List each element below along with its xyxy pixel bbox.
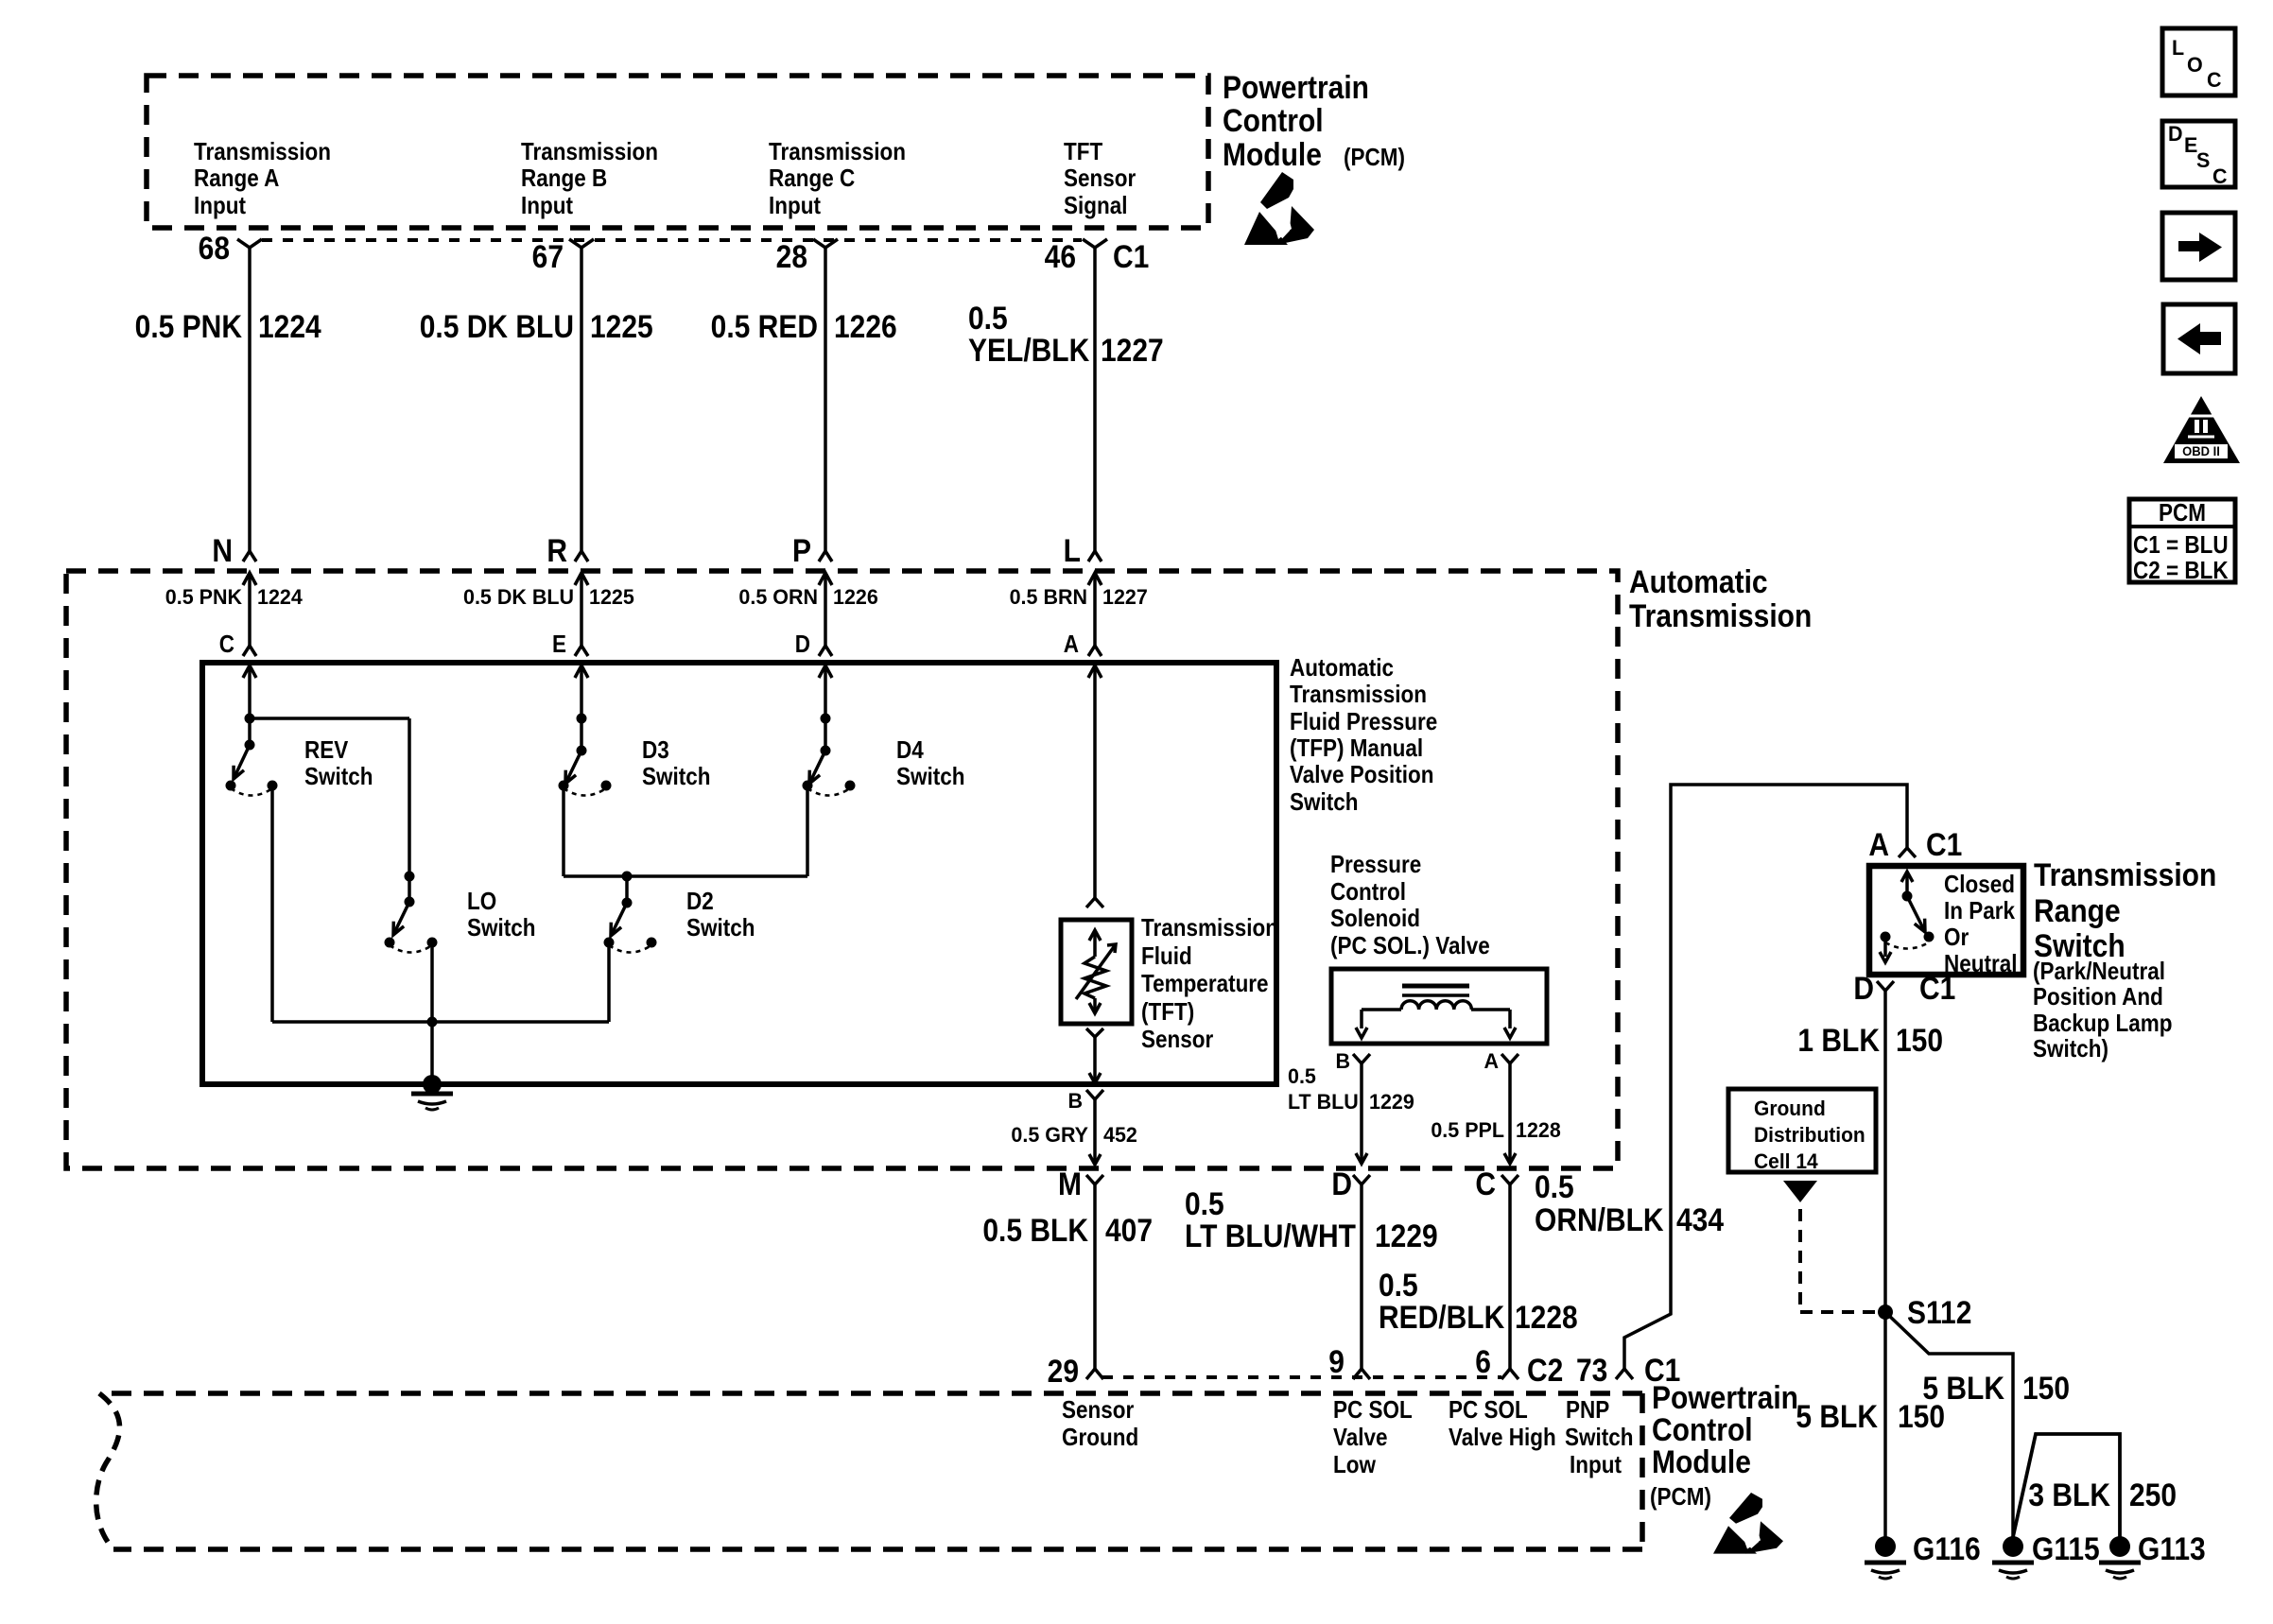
svg-text:0.5 GRY: 0.5 GRY bbox=[1011, 1123, 1088, 1148]
wire REV junction to LO switch bbox=[250, 717, 409, 720]
svg-text:Transmission: Transmission bbox=[1141, 915, 1278, 942]
svg-text:S: S bbox=[2196, 148, 2210, 173]
svg-text:29: 29 bbox=[1048, 1353, 1079, 1389]
svg-text:Temperature: Temperature bbox=[1141, 971, 1269, 998]
grommet R into transmission bbox=[463, 532, 634, 656]
svg-text:Ground: Ground bbox=[1062, 1425, 1138, 1452]
svg-text:Low: Low bbox=[1333, 1452, 1376, 1479]
svg-text:D4: D4 bbox=[896, 737, 924, 765]
svg-text:Input: Input bbox=[1570, 1452, 1622, 1479]
svg-text:0.5 PNK: 0.5 PNK bbox=[165, 585, 242, 610]
svg-text:P: P bbox=[792, 532, 811, 568]
svg-text:Distribution: Distribution bbox=[1754, 1124, 1865, 1148]
svg-text:A: A bbox=[1868, 826, 1889, 862]
svg-text:3 BLK: 3 BLK bbox=[2028, 1477, 2110, 1512]
label: PNP Switch Input bbox=[1565, 1397, 1633, 1479]
svg-text:Switch: Switch bbox=[304, 764, 373, 791]
svg-text:1227: 1227 bbox=[1101, 332, 1164, 368]
svg-text:0.5: 0.5 bbox=[1535, 1168, 1574, 1204]
connector D C1 (TR switch) bbox=[1853, 970, 1955, 1006]
svg-text:C: C bbox=[2207, 68, 2222, 93]
svg-text:LO: LO bbox=[467, 889, 496, 916]
Ground Distribution Cell 14 box bbox=[1728, 1089, 1876, 1172]
grommet L into transmission bbox=[1010, 532, 1148, 656]
svg-text:D: D bbox=[2168, 122, 2183, 147]
svg-text:150: 150 bbox=[2022, 1370, 2070, 1406]
svg-text:S112: S112 bbox=[1907, 1294, 1971, 1330]
pin E bbox=[552, 631, 588, 751]
svg-text:1224: 1224 bbox=[258, 308, 321, 344]
svg-text:Sensor: Sensor bbox=[1062, 1397, 1135, 1425]
ground G113 bbox=[2099, 1530, 2206, 1579]
svg-text:Switch: Switch bbox=[642, 764, 710, 791]
svg-text:Solenoid: Solenoid bbox=[1330, 906, 1420, 933]
svg-text:C: C bbox=[219, 631, 234, 659]
ground distribution feed arrow bbox=[1783, 1181, 1817, 1202]
svg-text:M: M bbox=[1058, 1166, 1082, 1201]
svg-text:0.5: 0.5 bbox=[1288, 1064, 1316, 1089]
title: Powertrain Control Module (PCM) bottom bbox=[1650, 1379, 1798, 1511]
svg-text:Automatic: Automatic bbox=[1290, 655, 1394, 682]
wire 1228 (0.5 PPL) bbox=[1431, 1063, 1560, 1164]
svg-text:N: N bbox=[212, 532, 233, 568]
svg-text:Input: Input bbox=[769, 193, 821, 220]
svg-text:Powertrain: Powertrain bbox=[1652, 1379, 1798, 1415]
wire 1224 (0.5 PNK) PCM to transmission bbox=[135, 248, 321, 551]
title: Transmission Range Switch (Park/Neutral Position And Backup Lamp Switch) bbox=[2033, 856, 2216, 1063]
svg-text:73: 73 bbox=[1576, 1352, 1607, 1388]
ground G115 bbox=[1992, 1530, 2100, 1579]
svg-text:6: 6 bbox=[1475, 1343, 1491, 1379]
svg-text:C1: C1 bbox=[1919, 970, 1955, 1006]
grommet N into transmission bbox=[165, 532, 304, 656]
svg-text:0.5 BLK: 0.5 BLK bbox=[982, 1212, 1088, 1248]
pin B (PC SOL) bbox=[1335, 1049, 1370, 1074]
icon: back arrow bbox=[2163, 304, 2235, 373]
svg-text:1229: 1229 bbox=[1375, 1218, 1438, 1253]
svg-text:9: 9 bbox=[1328, 1343, 1345, 1379]
svg-text:Automatic: Automatic bbox=[1629, 563, 1768, 599]
svg-text:C2: C2 bbox=[1527, 1352, 1563, 1388]
svg-text:(TFT): (TFT) bbox=[1141, 999, 1194, 1027]
label: Closed In Park Or Neutral bbox=[1944, 872, 2017, 978]
pin 9 connector bbox=[1328, 1343, 1370, 1379]
svg-text:(PCM): (PCM) bbox=[1344, 145, 1405, 172]
svg-text:Control: Control bbox=[1223, 102, 1324, 138]
svg-text:0.5: 0.5 bbox=[968, 300, 1008, 336]
Powertrain Control Module (PCM) dashed box (top) bbox=[147, 76, 1208, 228]
svg-text:(PCM): (PCM) bbox=[1650, 1484, 1711, 1512]
TFT sensor box bbox=[1061, 920, 1132, 1024]
svg-text:(TFP) Manual: (TFP) Manual bbox=[1290, 735, 1423, 763]
svg-text:1227: 1227 bbox=[1102, 585, 1148, 610]
wire 1229 (0.5 LT BLU) bbox=[1288, 1063, 1414, 1164]
svg-text:A: A bbox=[1064, 631, 1079, 659]
svg-text:Position And: Position And bbox=[2033, 984, 2163, 1011]
wire 407 (0.5 BLK) bbox=[982, 1184, 1153, 1369]
wire 1226 (0.5 RED) bbox=[711, 248, 897, 551]
connector A C1 (TR switch) bbox=[1868, 826, 1962, 862]
svg-text:LT BLU/WHT: LT BLU/WHT bbox=[1185, 1218, 1356, 1253]
svg-text:YEL/BLK: YEL/BLK bbox=[968, 332, 1090, 368]
svg-text:PC SOL: PC SOL bbox=[1449, 1397, 1528, 1425]
solenoid coil (PC SOL) bbox=[1356, 986, 1516, 1038]
label: Sensor Ground bbox=[1062, 1397, 1138, 1452]
wire 1228 (0.5 RED/BLK) bbox=[1379, 1184, 1578, 1369]
svg-text:Switch: Switch bbox=[1290, 789, 1358, 817]
svg-text:OBD II: OBD II bbox=[2182, 444, 2220, 458]
svg-text:Switch: Switch bbox=[896, 764, 964, 791]
pin C bbox=[219, 631, 256, 745]
svg-text:C: C bbox=[2212, 164, 2228, 189]
svg-text:D: D bbox=[795, 631, 810, 659]
svg-text:46: 46 bbox=[1045, 238, 1076, 274]
svg-text:Range C: Range C bbox=[769, 165, 855, 193]
connector row dashed line (bottom PCM) bbox=[1102, 1375, 1501, 1379]
icon: DESC bbox=[2162, 121, 2235, 188]
svg-text:Sensor: Sensor bbox=[1141, 1027, 1214, 1054]
connector row dashed line C1 (top) bbox=[262, 238, 1082, 242]
wire bus D3-D4 bbox=[564, 874, 807, 878]
svg-text:Control: Control bbox=[1652, 1411, 1753, 1447]
label: Ground Distribution Cell 14 bbox=[1754, 1097, 1865, 1174]
svg-text:D: D bbox=[1331, 1166, 1352, 1201]
svg-text:1229: 1229 bbox=[1369, 1090, 1414, 1114]
pin 29 connector bbox=[1048, 1353, 1103, 1389]
wire 150 (1 BLK) TR switch to S112 bbox=[1797, 991, 1943, 1537]
svg-text:Valve High: Valve High bbox=[1449, 1425, 1556, 1452]
svg-text:L: L bbox=[2172, 36, 2184, 60]
svg-text:C2 = BLK: C2 = BLK bbox=[2133, 558, 2229, 585]
svg-text:Or: Or bbox=[1944, 924, 1969, 952]
svg-text:1 BLK: 1 BLK bbox=[1797, 1022, 1880, 1058]
svg-text:G116: G116 bbox=[1913, 1530, 1981, 1566]
svg-text:A: A bbox=[1484, 1049, 1499, 1074]
Automatic Transmission dashed box bbox=[66, 571, 1618, 1168]
icon: LOC bbox=[2162, 28, 2235, 95]
wire LO right contact to internal ground bbox=[430, 945, 434, 1084]
svg-text:Powertrain: Powertrain bbox=[1223, 69, 1369, 105]
svg-text:Module: Module bbox=[1223, 136, 1322, 172]
svg-text:Transmission: Transmission bbox=[1290, 682, 1427, 709]
ground distribution dashed feed bbox=[1798, 1209, 1802, 1312]
svg-text:1225: 1225 bbox=[590, 308, 653, 344]
svg-text:0.5 PNK: 0.5 PNK bbox=[135, 308, 243, 344]
svg-text:(PC SOL.) Valve: (PC SOL.) Valve bbox=[1330, 933, 1490, 960]
svg-text:0.5 PPL: 0.5 PPL bbox=[1431, 1118, 1504, 1143]
pin A bbox=[1064, 631, 1102, 898]
svg-text:PNP: PNP bbox=[1566, 1397, 1609, 1425]
pin 68 connector bbox=[199, 230, 262, 266]
svg-text:434: 434 bbox=[1676, 1201, 1724, 1237]
svg-text:PCM: PCM bbox=[2159, 500, 2206, 527]
svg-text:ORN/BLK: ORN/BLK bbox=[1535, 1201, 1664, 1237]
ground (TFP internal) bbox=[423, 1075, 442, 1094]
svg-text:Range: Range bbox=[2034, 892, 2121, 928]
svg-text:Control: Control bbox=[1330, 879, 1406, 907]
svg-text:Transmission: Transmission bbox=[194, 139, 331, 166]
svg-text:0.5 DK BLU: 0.5 DK BLU bbox=[463, 585, 574, 610]
svg-text:Pressure: Pressure bbox=[1330, 852, 1421, 879]
label: TFT Sensor Signal bbox=[1064, 139, 1136, 220]
wire 1229 (0.5 LT BLU/WHT) bbox=[1185, 1184, 1438, 1369]
label: Automatic Transmission Fluid Pressure (TFP) Manual Valve Position Switch bbox=[1290, 655, 1437, 817]
TFP manual valve position switch box bbox=[202, 663, 1276, 1084]
svg-text:RED/BLK: RED/BLK bbox=[1379, 1299, 1505, 1335]
svg-text:28: 28 bbox=[776, 238, 807, 274]
wire 1227 (0.5 YEL/BLK) bbox=[968, 248, 1164, 551]
svg-text:1228: 1228 bbox=[1515, 1299, 1578, 1335]
legend: PCM connector colors bbox=[2129, 499, 2235, 584]
svg-text:Range B: Range B bbox=[521, 165, 607, 193]
label: Transmission Fluid Temperature (TFT) Sensor bbox=[1141, 915, 1278, 1054]
svg-text:O: O bbox=[2187, 53, 2203, 78]
wire 150 (5 BLK) to G116 label bbox=[1796, 1398, 1945, 1434]
svg-text:407: 407 bbox=[1105, 1212, 1153, 1248]
icon: forward arrow bbox=[2162, 213, 2235, 280]
title: Automatic Transmission bbox=[1629, 563, 1812, 633]
svg-text:Closed: Closed bbox=[1944, 872, 2015, 899]
ESD warning symbol (top PCM) bbox=[1244, 172, 1314, 245]
svg-text:Ground: Ground bbox=[1754, 1097, 1826, 1121]
wire 150 (5 BLK) S112 to G115 bbox=[1885, 1312, 2070, 1537]
svg-text:Input: Input bbox=[521, 193, 573, 220]
connector M bbox=[1058, 1166, 1103, 1201]
splice S112 bbox=[1878, 1294, 1971, 1330]
svg-text:In Park: In Park bbox=[1944, 898, 2015, 925]
svg-text:68: 68 bbox=[199, 230, 230, 266]
wire REV right contact down bbox=[270, 788, 274, 1022]
svg-text:C1 = BLU: C1 = BLU bbox=[2133, 532, 2229, 560]
pin D bbox=[795, 631, 832, 751]
wire 434 (0.5 ORN/BLK) PNP switch input bbox=[1535, 785, 1907, 1369]
label: Transmission Range B Input bbox=[521, 139, 658, 220]
wire 1225 (0.5 DK BLU) bbox=[420, 248, 653, 551]
Powertrain Control Module dashed box (bottom) bbox=[99, 1391, 1642, 1396]
svg-text:1226: 1226 bbox=[834, 308, 897, 344]
wire 452 (0.5 GRY) bbox=[1011, 1099, 1136, 1165]
svg-text:Valve: Valve bbox=[1333, 1425, 1388, 1452]
svg-text:B: B bbox=[1335, 1049, 1350, 1074]
svg-text:Switch: Switch bbox=[686, 915, 755, 942]
svg-text:Sensor: Sensor bbox=[1064, 165, 1136, 193]
wire D4 left contact down bbox=[806, 788, 809, 876]
svg-text:B: B bbox=[1067, 1089, 1083, 1114]
ESD warning symbol (bottom PCM) bbox=[1713, 1493, 1783, 1554]
svg-text:R: R bbox=[547, 532, 567, 568]
D4 switch bbox=[803, 714, 965, 796]
grommet P into transmission bbox=[738, 532, 877, 656]
label: Transmission Range A Input bbox=[194, 139, 331, 220]
pin B (TFT output) bbox=[1067, 1089, 1103, 1114]
svg-text:D2: D2 bbox=[686, 889, 714, 916]
svg-text:0.5 RED: 0.5 RED bbox=[711, 308, 818, 344]
pin A (PC SOL) bbox=[1484, 1049, 1518, 1074]
svg-text:Switch: Switch bbox=[467, 915, 535, 942]
pin 28 connector bbox=[776, 238, 838, 274]
svg-text:PC SOL: PC SOL bbox=[1333, 1397, 1413, 1425]
svg-text:1225: 1225 bbox=[589, 585, 634, 610]
wire D2 left contact to bus bbox=[607, 945, 611, 1022]
svg-text:E: E bbox=[552, 631, 566, 659]
label: PC SOL Valve High bbox=[1449, 1397, 1556, 1452]
svg-text:LT BLU: LT BLU bbox=[1288, 1090, 1359, 1114]
wire TFT to box edge bbox=[1086, 1028, 1103, 1083]
svg-text:REV: REV bbox=[304, 737, 348, 765]
icon: OBD II bbox=[2163, 396, 2240, 463]
svg-text:Signal: Signal bbox=[1064, 193, 1127, 220]
svg-text:(Park/Neutral: (Park/Neutral bbox=[2033, 959, 2165, 986]
TR switch contacts bbox=[1880, 872, 1935, 962]
connector above TFT sensor bbox=[1086, 898, 1103, 907]
svg-text:Transmission: Transmission bbox=[1629, 597, 1812, 633]
svg-text:C1: C1 bbox=[1113, 238, 1149, 274]
svg-text:Valve Position: Valve Position bbox=[1290, 762, 1433, 789]
svg-text:1228: 1228 bbox=[1516, 1118, 1561, 1143]
svg-text:Transmission: Transmission bbox=[2034, 856, 2216, 892]
D2 switch bbox=[604, 876, 755, 953]
svg-text:5 BLK: 5 BLK bbox=[1796, 1398, 1878, 1434]
svg-text:Backup Lamp: Backup Lamp bbox=[2033, 1011, 2172, 1038]
svg-text:0.5 ORN: 0.5 ORN bbox=[738, 585, 818, 610]
svg-text:Cell 14: Cell 14 bbox=[1754, 1150, 1818, 1174]
svg-text:5 BLK: 5 BLK bbox=[1922, 1370, 2004, 1406]
label: PC SOL Valve Low bbox=[1333, 1397, 1413, 1479]
wire 250 (3 BLK) G115 to G113 bbox=[2013, 1434, 2177, 1537]
svg-text:Input: Input bbox=[194, 193, 246, 220]
svg-text:Switch: Switch bbox=[1565, 1425, 1633, 1452]
svg-text:G115: G115 bbox=[2032, 1530, 2100, 1566]
pin 67 connector bbox=[532, 238, 594, 274]
wire D3 left contact down bbox=[562, 788, 565, 876]
svg-text:452: 452 bbox=[1103, 1123, 1137, 1148]
TFT thermistor symbol bbox=[1076, 930, 1116, 1013]
svg-text:Fluid Pressure: Fluid Pressure bbox=[1290, 709, 1437, 736]
connector C bbox=[1475, 1166, 1518, 1201]
svg-text:1224: 1224 bbox=[257, 585, 304, 610]
label: Pressure Control Solenoid (PC SOL.) Valve bbox=[1330, 852, 1490, 960]
pin 46 connector C1 bbox=[1045, 238, 1150, 274]
svg-text:Fluid: Fluid bbox=[1141, 943, 1192, 971]
svg-text:Module: Module bbox=[1652, 1443, 1751, 1479]
svg-text:Transmission: Transmission bbox=[769, 139, 906, 166]
pin 73 connector C1 bbox=[1576, 1352, 1680, 1388]
ground G116 bbox=[1865, 1530, 1981, 1579]
svg-text:0.5: 0.5 bbox=[1379, 1267, 1418, 1303]
LO switch bbox=[385, 872, 536, 953]
pin 6 connector C2 bbox=[1475, 1343, 1563, 1388]
PC SOL valve box bbox=[1331, 969, 1547, 1044]
svg-text:L: L bbox=[1064, 532, 1081, 568]
svg-text:150: 150 bbox=[1896, 1022, 1943, 1058]
connector D bbox=[1331, 1166, 1370, 1201]
svg-text:D3: D3 bbox=[642, 737, 669, 765]
transmission range switch box bbox=[1869, 866, 2023, 975]
svg-text:C1: C1 bbox=[1926, 826, 1962, 862]
svg-text:0.5 BRN: 0.5 BRN bbox=[1010, 585, 1087, 610]
svg-text:Range A: Range A bbox=[194, 165, 279, 193]
svg-text:C: C bbox=[1475, 1166, 1496, 1201]
svg-text:Switch): Switch) bbox=[2033, 1036, 2108, 1063]
svg-text:250: 250 bbox=[2129, 1477, 2177, 1512]
svg-text:G113: G113 bbox=[2138, 1530, 2206, 1566]
REV switch bbox=[226, 714, 373, 796]
svg-text:D: D bbox=[1853, 970, 1874, 1006]
svg-text:0.5 DK BLU: 0.5 DK BLU bbox=[420, 308, 574, 344]
svg-text:TFT: TFT bbox=[1064, 139, 1102, 166]
D3 switch bbox=[559, 714, 711, 796]
svg-text:0.5: 0.5 bbox=[1185, 1185, 1224, 1221]
svg-text:67: 67 bbox=[532, 238, 564, 274]
title: Powertrain Control Module (PCM) top bbox=[1223, 69, 1405, 172]
label: Transmission Range C Input bbox=[769, 139, 906, 220]
svg-text:Transmission: Transmission bbox=[521, 139, 658, 166]
svg-text:1226: 1226 bbox=[833, 585, 878, 610]
